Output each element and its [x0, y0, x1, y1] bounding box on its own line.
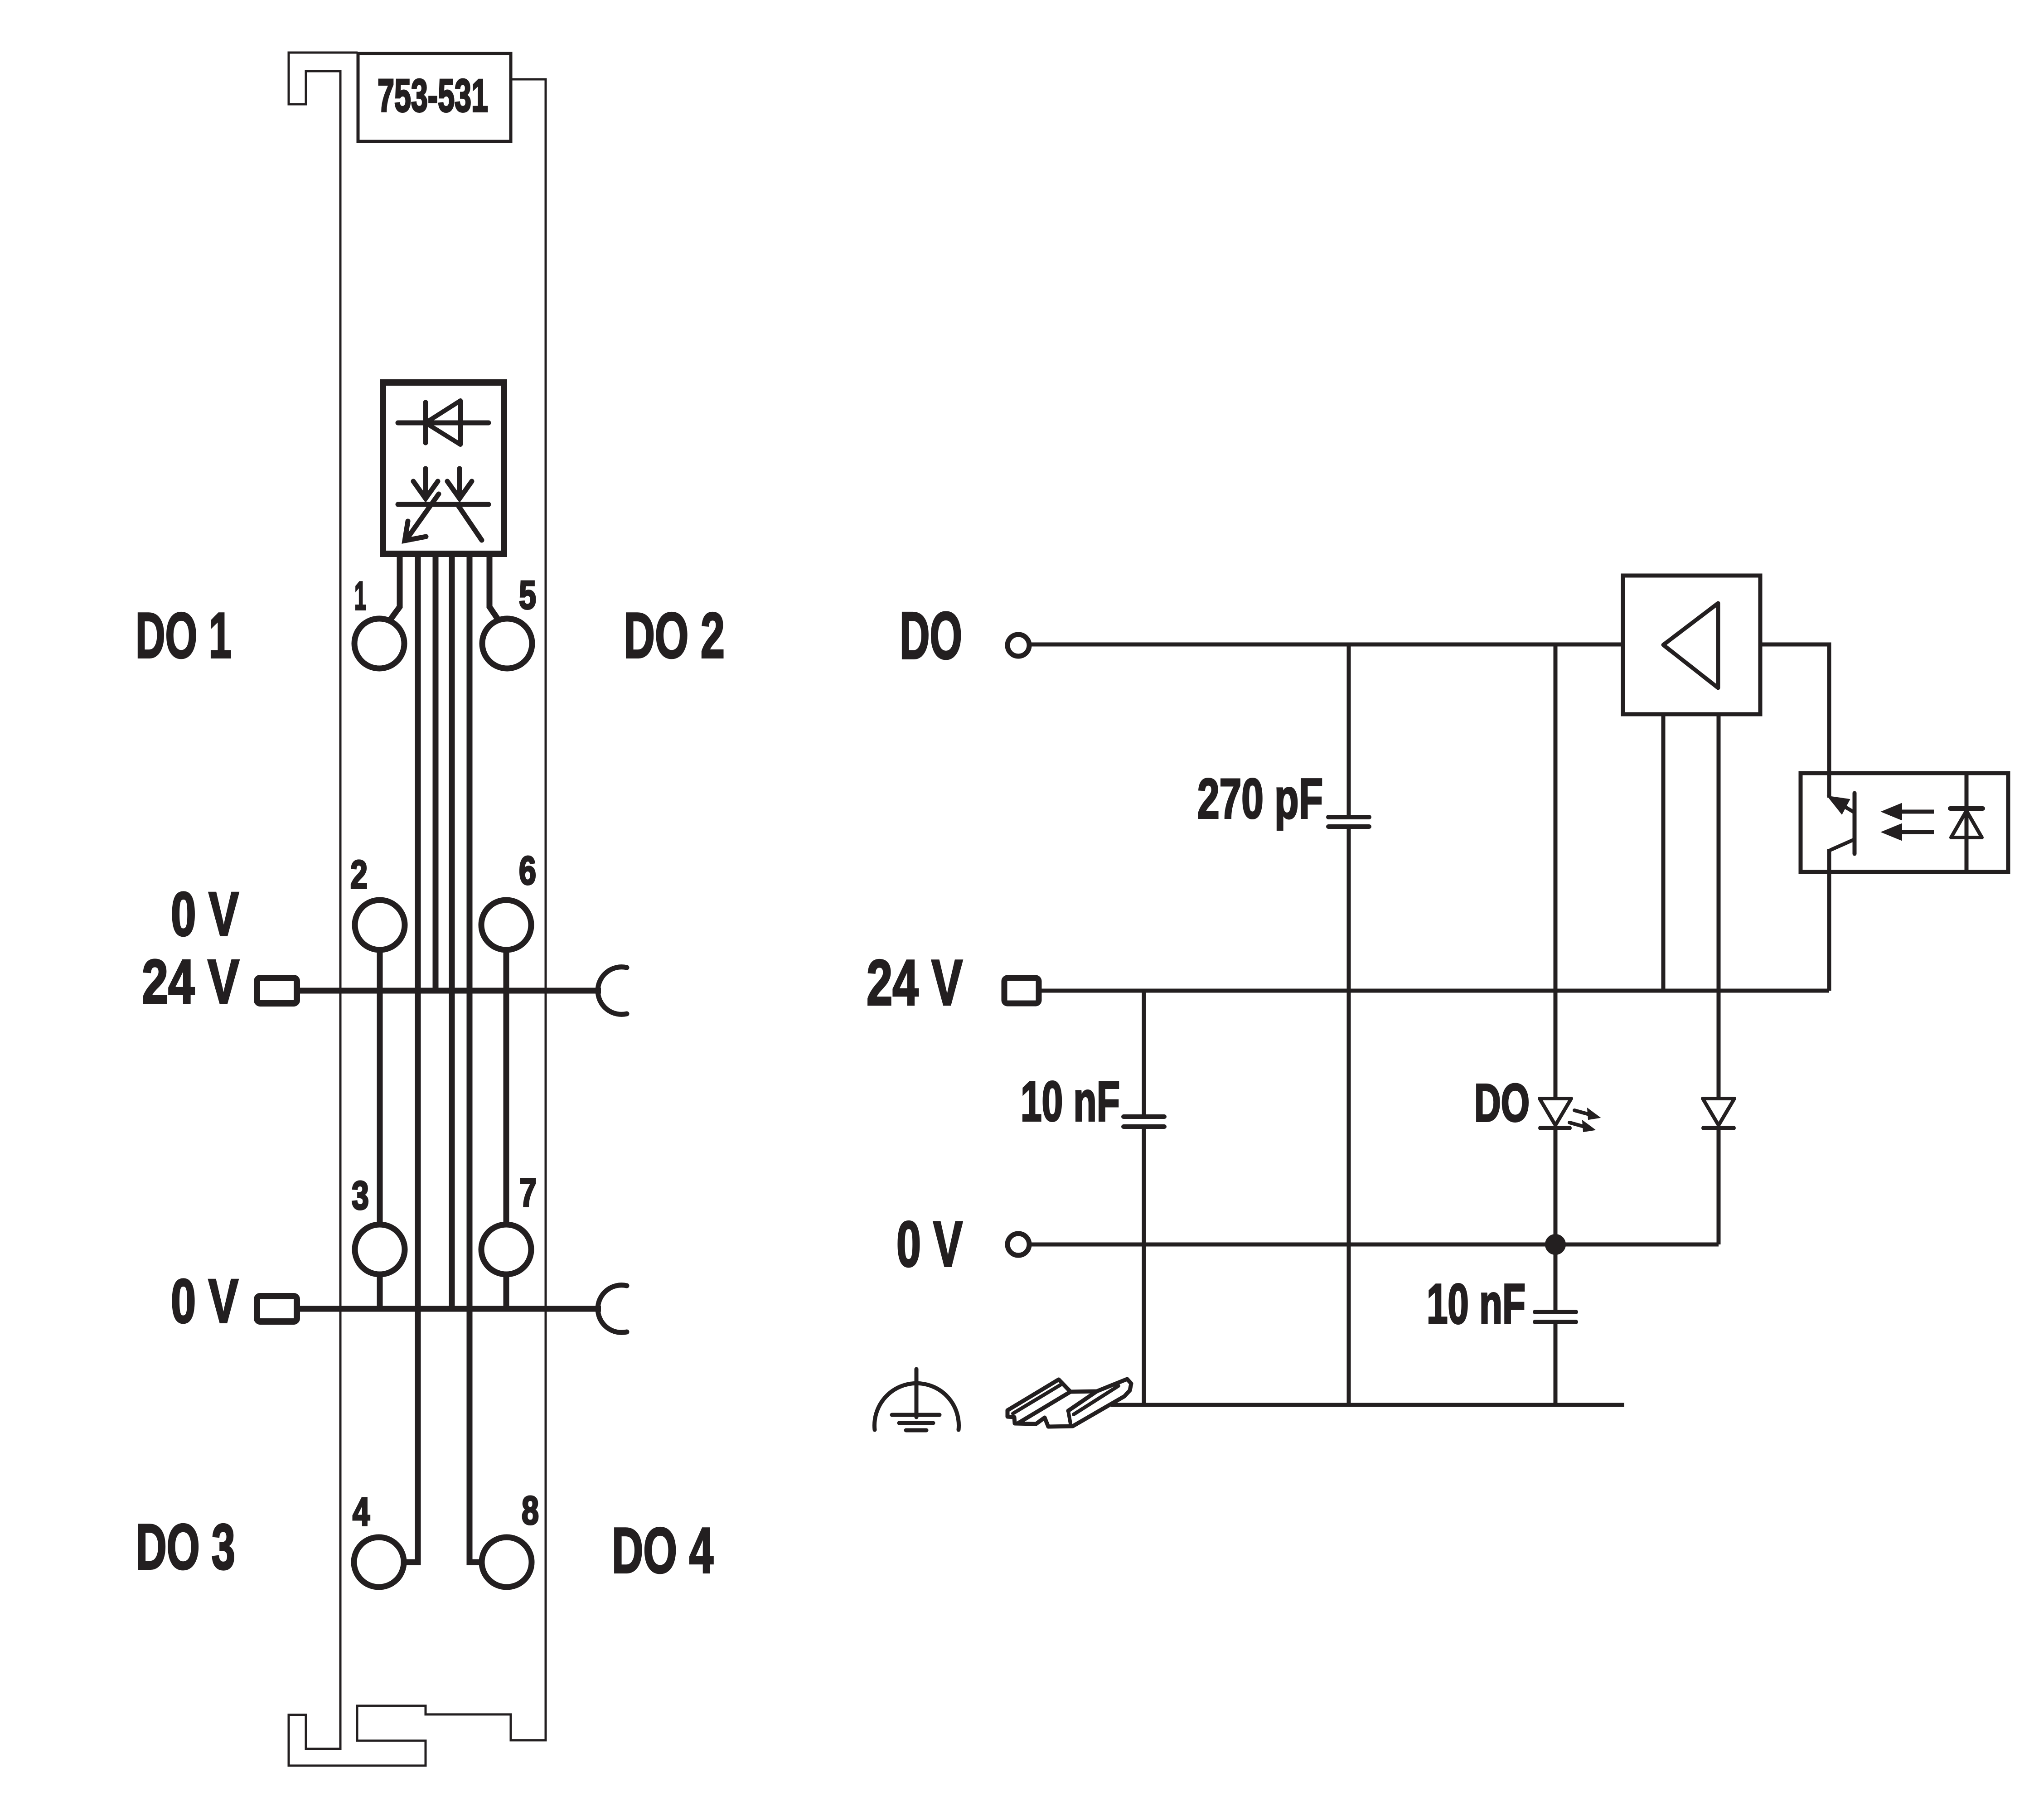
junction dot LED/0V [1545, 1234, 1566, 1255]
svg-text:DO: DO [1474, 1073, 1530, 1133]
svg-text:6: 6 [519, 848, 536, 893]
DO wire [1029, 643, 1623, 647]
svg-text:1: 1 [354, 573, 366, 618]
opto light arrow 2 [1899, 830, 1934, 834]
svg-text:DO 3: DO 3 [136, 1511, 235, 1583]
capacitor C1 270pF plates [1328, 817, 1369, 827]
24V power jumper contact [257, 978, 297, 1003]
opto LED triangle [1951, 811, 1982, 837]
svg-text:0 V: 0 V [171, 1267, 238, 1336]
wire terminal 2 to terminal 3 [377, 950, 383, 1225]
wire pin4 to 0V bus [449, 554, 455, 1309]
0V wire right schematic [1029, 1243, 1719, 1247]
svg-text:0 V: 0 V [896, 1208, 963, 1280]
opto light arrow 1 [1899, 810, 1934, 814]
svg-text:5: 5 [519, 572, 536, 617]
phototransistor collector arrowhead [1828, 796, 1850, 814]
0V jumper arc contact right [598, 1285, 627, 1333]
ground bus wire [1111, 1403, 1624, 1407]
diode D2 triangle [1703, 1099, 1734, 1125]
electronic output symbol inside U1 [398, 469, 489, 541]
amplifier triangle [1663, 603, 1718, 688]
LED branch wire from DO line [1554, 644, 1558, 1099]
diode D1 inside U1 [398, 401, 489, 445]
svg-text:24 V: 24 V [142, 947, 239, 1016]
terminal 2 [355, 900, 405, 950]
diode D2 wire to 0V [1717, 1128, 1721, 1244]
wire pin6 to terminal 5 [489, 554, 504, 628]
LED light arrows [1569, 1108, 1600, 1132]
svg-text:8: 8 [522, 1488, 539, 1533]
capacitor C3 10nF plates [1535, 1312, 1576, 1322]
svg-text:3: 3 [352, 1173, 369, 1218]
LED DO indicator triangle [1540, 1099, 1571, 1125]
phototransistor collector wire into box [1827, 773, 1831, 798]
terminal 7 [481, 1225, 531, 1274]
phototransistor base [1853, 793, 1857, 854]
capacitor C1 branch wire lower to ground [1347, 828, 1351, 1405]
terminal 8 [482, 1537, 532, 1587]
svg-text:DO: DO [900, 599, 962, 673]
amp right pin through diode to 0V [1717, 714, 1721, 1099]
capacitor C2 10nF plates [1124, 1117, 1164, 1127]
earth symbol [875, 1369, 959, 1430]
capacitor C3 wire to ground [1554, 1323, 1558, 1405]
svg-text:7: 7 [519, 1170, 537, 1215]
LED DO cathode bar [1540, 1126, 1569, 1130]
terminal 4 [354, 1537, 404, 1587]
24V bus wire [297, 988, 601, 994]
capacitor C2 10nF branch [1142, 991, 1146, 1116]
capacitor C2 wire to ground [1142, 1128, 1146, 1405]
amp output wire to optocoupler [1760, 644, 1829, 796]
opto LED axis wire [1965, 773, 1969, 872]
DIN rail symbol [1007, 1379, 1131, 1427]
svg-text:4: 4 [353, 1489, 370, 1534]
phototransistor emitter [1830, 839, 1855, 850]
terminal 3 [355, 1225, 405, 1274]
wire pin3 to 24V bus [433, 554, 439, 991]
module outline [289, 53, 546, 1766]
capacitor C1 270pF branch wire upper [1347, 644, 1351, 816]
phototransistor emitter wire to 24V [1827, 849, 1831, 991]
0V terminal circle right [1007, 1234, 1029, 1255]
24V wire right schematic [1039, 989, 1829, 993]
wire pin1 to terminal 1 [383, 554, 400, 629]
svg-text:DO 1: DO 1 [136, 600, 232, 672]
terminal 5 [482, 619, 532, 668]
terminal 6 [481, 900, 531, 950]
wire terminal 6 to terminal 7 [504, 950, 509, 1225]
svg-text:DO 2: DO 2 [624, 600, 725, 672]
0V power jumper contact [257, 1296, 297, 1321]
phototransistor collector [1832, 799, 1855, 813]
LED branch wire to 0V [1554, 1128, 1558, 1244]
optocoupler box U3 [1801, 773, 2008, 872]
amplifier box U2 [1623, 576, 1760, 714]
capacitor C3 10nF wire [1554, 1244, 1558, 1311]
0V bus wire [297, 1306, 601, 1312]
wire terminal 7 to 0V bus [504, 1274, 509, 1309]
24V jumper arc contact right [598, 967, 627, 1015]
wire terminal 3 to 0V bus [377, 1274, 383, 1309]
svg-text:10 nF: 10 nF [1427, 1273, 1525, 1336]
diode D2 cathode bar [1704, 1126, 1734, 1130]
amp left pin to 24V [1661, 714, 1666, 991]
svg-text:0 V: 0 V [171, 880, 239, 949]
svg-text:24 V: 24 V [867, 947, 963, 1019]
svg-text:753-531: 753-531 [378, 70, 488, 121]
wire pin2 to terminal 4 [405, 554, 418, 1562]
terminal 1 [354, 619, 404, 668]
opto LED cathode bar [1950, 806, 1983, 811]
svg-text:10 nF: 10 nF [1021, 1070, 1120, 1133]
DO input terminal circle [1007, 634, 1029, 656]
label box 753-531 [358, 53, 511, 141]
svg-text:DO 4: DO 4 [612, 1515, 713, 1587]
wire pin5 to terminal 8 [470, 554, 481, 1562]
svg-text:270 pF: 270 pF [1197, 768, 1323, 830]
IC box U1 [383, 382, 504, 554]
24V contact rect right [1004, 978, 1039, 1003]
svg-text:2: 2 [350, 852, 368, 897]
